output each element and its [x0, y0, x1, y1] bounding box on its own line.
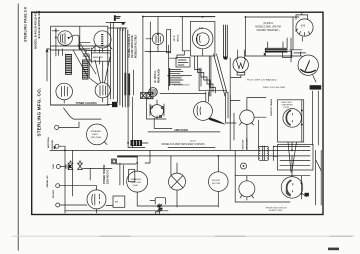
S3 caption rows	[282, 102, 294, 109]
svg-text:MAGNET SPEAKER ): MAGNET SPEAKER )	[257, 29, 280, 32]
tube V3 internals	[62, 86, 68, 103]
V11 wires	[231, 98, 266, 118]
IF can caption	[174, 34, 179, 42]
circle C3	[209, 172, 229, 192]
S4 side wire	[302, 176, 307, 199]
output trans box	[278, 100, 304, 142]
T2 blob	[69, 165, 72, 168]
vertical label column	[103, 164, 109, 184]
svg-text:6SQ7 DET: 6SQ7 DET	[242, 139, 244, 150]
V5 top dot	[157, 33, 159, 35]
band2 second wire	[137, 155, 310, 157]
switch cluster	[158, 204, 162, 212]
switch box	[113, 196, 125, 207]
svg-text:PHONO: PHONO	[212, 180, 220, 182]
long diagonals	[214, 54, 228, 96]
mixer box marks	[178, 60, 188, 65]
speaker S1	[87, 124, 108, 145]
connector slits	[134, 141, 140, 145]
crossed coil B dot	[79, 161, 81, 163]
V2 drop wire	[91, 48, 99, 64]
output transformer 2	[258, 146, 273, 161]
coil L1	[66, 55, 72, 75]
rectifier cap box	[296, 12, 308, 19]
V1 grid wire	[69, 35, 91, 49]
C2 riser wire	[170, 156, 172, 175]
capacitor C1	[83, 50, 89, 59]
terminal T3	[56, 184, 60, 188]
speaker S1 text	[91, 130, 102, 139]
tube V11	[240, 110, 254, 124]
V12 internals	[92, 186, 100, 214]
svg-text:VOLUME CONTROL &: VOLUME CONTROL &	[129, 34, 131, 58]
crossed coil A	[68, 163, 73, 170]
S3 side dots	[301, 110, 303, 112]
svg-text:SERIAL NO.: SERIAL NO.	[46, 175, 49, 188]
title underline 2	[168, 147, 215, 149]
svg-text:PEAK ALIGN: PEAK ALIGN	[157, 69, 160, 83]
svg-text:PILOT LIGHT 6.3V MAZDA 44: PILOT LIGHT 6.3V MAZDA 44	[247, 78, 277, 81]
tube V12	[87, 190, 106, 209]
tube V6 outer	[192, 28, 213, 49]
small terminal dot	[243, 165, 245, 167]
switch assembly	[150, 198, 166, 204]
svg-text:MOTOR: MOTOR	[212, 183, 221, 185]
svg-text:SPEAKER: SPEAKER	[131, 178, 142, 181]
V4 funnel wires	[89, 55, 110, 84]
chassis bottom rail	[51, 104, 110, 106]
mid long wire	[160, 93, 206, 95]
tube V4	[95, 83, 110, 98]
speaker S1 nub	[104, 142, 107, 145]
crossed coil A dot	[70, 161, 72, 163]
V11 caption columns	[242, 138, 248, 149]
electrolytic lead	[107, 104, 112, 106]
tube V6 inner	[196, 33, 209, 46]
bundle arrow	[264, 53, 266, 56]
speaker S3 crescent	[286, 111, 290, 125]
pilot top wire	[245, 55, 302, 57]
bundle risers	[283, 38, 291, 62]
dark box right	[310, 85, 322, 89]
svg-text:OHM: OHM	[133, 185, 138, 187]
tube V13	[239, 181, 255, 197]
S4 side dots	[301, 182, 303, 184]
svg-text:AMPLIFIER: AMPLIFIER	[174, 128, 188, 132]
tube V3	[56, 83, 73, 100]
connector lead	[142, 142, 148, 144]
svg-text:( B-450 &: ( B-450 &	[263, 23, 273, 25]
phono compartment box	[278, 145, 314, 171]
ladder wires	[273, 146, 310, 165]
svg-text:B-412,B-460P,B-423: B-412,B-460P,B-423	[37, 10, 41, 38]
rectifier pins	[296, 29, 310, 35]
wire y90.7	[199, 86, 226, 90]
band2 right wires	[235, 150, 321, 205]
socket rect B	[147, 93, 153, 99]
svg-text:FIELD: FIELD	[92, 134, 99, 136]
S3 side wire	[301, 100, 303, 142]
stepped wire to bus	[169, 51, 184, 58]
note text 3 lines	[255, 23, 280, 32]
osc drop verticals	[199, 56, 211, 96]
V7 pin bumps	[150, 106, 152, 108]
T wires	[59, 146, 113, 213]
pilot filament	[236, 50, 246, 69]
tube V2	[94, 31, 111, 48]
bottom long wire	[65, 210, 168, 212]
S4 smudge	[286, 190, 292, 197]
volume control label (vertical)	[129, 34, 138, 58]
speaker cable V	[288, 142, 297, 172]
long wires center	[143, 17, 150, 99]
bus right of osc	[223, 25, 227, 58]
switch dots	[157, 206, 159, 208]
trimmer arrows	[73, 44, 96, 77]
speaker S4	[281, 177, 303, 199]
rectifier drop wire	[301, 37, 303, 41]
small coil top view	[149, 88, 158, 97]
svg-text:I.F. 456 K.C.: I.F. 456 K.C.	[154, 70, 157, 83]
V10 exit wire	[313, 76, 316, 82]
svg-text:456 KC: 456 KC	[176, 34, 179, 42]
speaker V10	[298, 55, 318, 75]
tube V5 internals	[146, 17, 160, 52]
left long wire of mid band	[229, 58, 231, 150]
osc shield box	[190, 22, 215, 57]
tube V6 cathode arcs	[197, 34, 200, 44]
jack double square	[112, 159, 117, 164]
pilot base	[237, 72, 245, 75]
V8 tube	[194, 102, 213, 121]
socket rect A	[141, 93, 147, 99]
terminal T4	[56, 203, 60, 207]
S4 crescent	[287, 181, 291, 195]
crossed coil B	[78, 163, 83, 170]
svg-text:1ST AUDIO: 1ST AUDIO	[245, 138, 248, 149]
IF label vertical	[154, 69, 160, 83]
C1 text	[131, 178, 142, 187]
rectifier V9	[296, 19, 313, 36]
black connector	[131, 140, 143, 146]
border frame	[32, 12, 323, 214]
svg-text:ON-OFF SWITCH ON: ON-OFF SWITCH ON	[132, 35, 134, 58]
staircase wires	[195, 56, 216, 93]
condenser top ties	[108, 23, 127, 29]
tuner unit box	[51, 26, 108, 105]
top bus wire	[106, 17, 215, 23]
svg-text:GROUND: GROUND	[52, 140, 54, 150]
coil L2	[83, 60, 89, 79]
tube V2 leads	[92, 45, 112, 52]
svg-text:MODELS 2BAL USE PM: MODELS 2BAL USE PM	[255, 26, 280, 29]
svg-text:SPEAKER: SPEAKER	[91, 130, 102, 133]
terminal T2	[56, 165, 60, 169]
switch base box	[156, 212, 160, 215]
component box	[129, 169, 135, 181]
osc wires	[180, 17, 215, 56]
circle C1 field	[127, 171, 148, 192]
electrolytic block	[112, 102, 117, 107]
V10 needle	[305, 61, 309, 71]
terminal T0	[55, 125, 59, 129]
tube V7	[151, 105, 164, 118]
bus terminal	[224, 57, 227, 60]
label box	[91, 53, 110, 61]
tube V1 internals	[52, 28, 65, 56]
svg-text:PADDER ADJUST: PADDER ADJUST	[173, 83, 191, 86]
bottom right dash	[328, 248, 339, 251]
rectifier left wire	[290, 17, 302, 50]
amp feed wires	[128, 70, 145, 148]
resistor cigar B	[128, 73, 130, 95]
svg-text:FIELD 450: FIELD 450	[131, 182, 142, 184]
svg-text:PHONO: PHONO	[53, 190, 55, 198]
terminal T0 wire	[59, 122, 79, 127]
V8 swoosh	[209, 118, 226, 125]
tube V4 internals	[100, 85, 106, 102]
right vertical wires mid	[234, 91, 318, 177]
svg-text:STERLING MFG. CO.: STERLING MFG. CO.	[37, 88, 42, 137]
svg-text:MODELS B-411 ONLY: MODELS B-411 ONLY	[135, 34, 138, 58]
V10 dark arc	[301, 69, 316, 73]
svg-text:OUTPUT TRANS: OUTPUT TRANS	[270, 98, 273, 116]
V10 top stub	[294, 52, 306, 55]
V1 junction dots	[55, 30, 57, 32]
pilot lamp	[233, 57, 248, 72]
svg-text:PLUG: PLUG	[284, 107, 290, 109]
svg-text:B-4-P: B-4-P	[190, 140, 196, 142]
title underline	[148, 131, 220, 133]
V7 stubs	[154, 100, 172, 128]
V8 wires	[206, 92, 236, 123]
tube V5	[152, 33, 163, 44]
svg-text:FIELD COIL 450 OHM: FIELD COIL 450 OHM	[263, 87, 285, 89]
IF can	[167, 30, 171, 53]
cigar tails	[125, 96, 129, 107]
wire to terminal	[64, 108, 101, 119]
svg-text:GND: GND	[53, 164, 55, 169]
tube V11 pins	[240, 123, 254, 151]
svg-text:BAND SW: BAND SW	[93, 56, 103, 59]
resistor cigar A	[124, 73, 126, 96]
page spine edge	[17, 4, 19, 250]
thick cable bar	[118, 155, 137, 157]
right blob	[305, 193, 309, 197]
ladder diagonal	[316, 160, 322, 171]
C3 text	[212, 180, 221, 185]
mixer coil box	[176, 58, 190, 68]
band2 link wires	[137, 150, 218, 207]
V7 cluster	[147, 99, 167, 120]
terminal T1	[55, 144, 59, 148]
bottom margin darker segs	[100, 235, 352, 237]
band2 top wire	[50, 149, 310, 151]
svg-text:6X5: 6X5	[301, 25, 306, 28]
antenna	[114, 15, 125, 30]
svg-text:MODELS B-460P AMPLIFIER CHASSI: MODELS B-460P AMPLIFIER CHASSIS	[161, 143, 204, 146]
S4 marks	[292, 184, 294, 193]
svg-text:1ST IF: 1ST IF	[174, 35, 176, 42]
mid wire	[145, 45, 170, 90]
terminal blob	[54, 146, 56, 149]
power top wire	[245, 17, 299, 56]
svg-text:TUNER CHASSIS: TUNER CHASSIS	[76, 101, 97, 105]
small terminal circle	[241, 163, 247, 169]
cable verticals	[116, 163, 136, 185]
svg-text:SW: SW	[115, 202, 118, 204]
C2 cross	[171, 176, 183, 188]
speaker S3	[283, 109, 302, 128]
caption band2	[266, 207, 287, 212]
small coil hatch	[149, 90, 157, 94]
V13 pins	[240, 176, 254, 200]
svg-text:115V 60 CYC: 115V 60 CYC	[106, 169, 109, 184]
svg-text:2450 OHM: 2450 OHM	[91, 137, 102, 139]
tube V1	[58, 31, 73, 46]
wire left drop	[46, 49, 51, 81]
svg-text:ANTENNA: ANTENNA	[47, 137, 50, 148]
tube V2 electrode stack	[102, 35, 104, 46]
T2 capacitor	[60, 165, 68, 169]
V1 grid dot	[68, 37, 70, 39]
V8 arc	[197, 106, 201, 116]
bus bundle	[265, 48, 287, 52]
bottom margin faint line	[12, 235, 354, 237]
tuning condenser gang lines	[111, 23, 114, 100]
output trans box	[282, 51, 291, 57]
circle C2 motor	[169, 173, 186, 190]
svg-text:STERLING PAGE 2-6: STERLING PAGE 2-6	[24, 7, 28, 42]
svg-text:B-460P ONLY: B-460P ONLY	[269, 210, 283, 212]
svg-text:6A8: 6A8	[199, 27, 204, 30]
coil link wires	[83, 168, 112, 180]
IF coil comb	[170, 69, 192, 86]
bundle corner	[265, 42, 267, 56]
svg-text:PHONO MOTOR ON: PHONO MOTOR ON	[266, 207, 287, 209]
pilot exit wire	[231, 75, 241, 78]
box internal wires	[51, 26, 111, 51]
S3 marks	[291, 114, 293, 123]
